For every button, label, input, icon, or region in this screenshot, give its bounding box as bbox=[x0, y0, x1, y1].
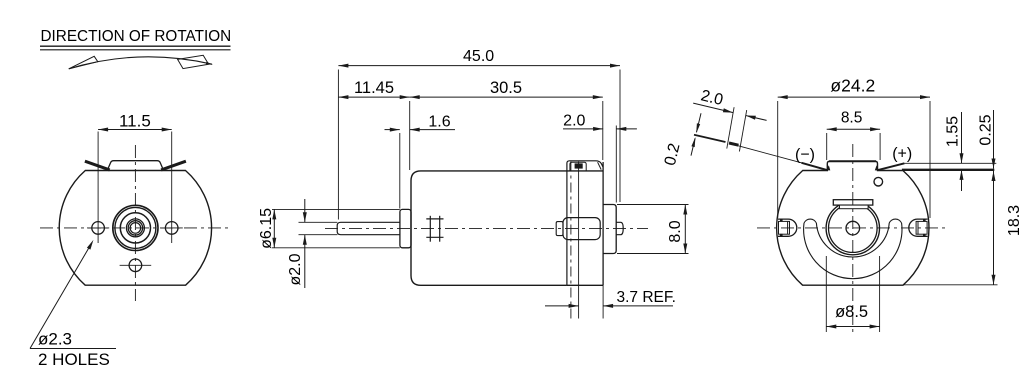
cap terminal centerline dash-dot bbox=[570, 162, 572, 319]
dimension 8.0 bbox=[684, 205, 686, 254]
side view front collar bbox=[400, 209, 411, 247]
svg-text:11.5: 11.5 bbox=[119, 111, 151, 130]
rotation arrow right open flag bbox=[178, 55, 209, 68]
rear view right terminal fold bbox=[877, 163, 904, 170]
front view left mounting hole bbox=[92, 222, 105, 235]
bottom hole horizontal tick bbox=[120, 264, 152, 266]
svg-text:3.7 REF.: 3.7 REF. bbox=[617, 289, 676, 306]
rear view motor body outline bbox=[777, 161, 929, 285]
svg-text:8.5: 8.5 bbox=[841, 110, 863, 127]
svg-text:ø8.5: ø8.5 bbox=[835, 303, 868, 321]
dimension 3.7 REF bbox=[545, 305, 579, 307]
rear view bearing recess circle outer bbox=[826, 201, 879, 254]
cap tab inner rect bbox=[570, 162, 586, 171]
front view right mounting hole bbox=[165, 222, 178, 235]
dimension 11.5 bbox=[98, 129, 172, 131]
svg-text:ø2.0: ø2.0 bbox=[287, 253, 304, 285]
svg-text:DIRECTION OF ROTATION: DIRECTION OF ROTATION bbox=[41, 28, 232, 45]
rotation arrow left open flag bbox=[69, 56, 98, 69]
side view commutator washer bbox=[429, 216, 431, 242]
svg-text:ø24.2: ø24.2 bbox=[830, 75, 875, 95]
front view top tab boss bbox=[107, 161, 163, 171]
rear terminal thin extension line bbox=[904, 162, 996, 164]
title underline double rule bbox=[40, 45, 231, 47]
front view left terminal stub bbox=[85, 161, 110, 170]
rear terminal flat strip thick line bbox=[902, 169, 994, 171]
dimension 2.0 boss bbox=[563, 128, 603, 130]
svg-text:8.0: 8.0 bbox=[667, 220, 684, 242]
side view shaft bbox=[337, 222, 400, 234]
terminal detail dimension 2.0 bbox=[693, 103, 733, 113]
dimension 8.5 tab extension lines bbox=[826, 133, 828, 160]
side view rear shaft nub bbox=[616, 222, 623, 234]
rear view vertical centerline bbox=[852, 144, 854, 335]
side view end cap outline bbox=[567, 170, 603, 172]
svg-text:0.25: 0.25 bbox=[978, 114, 995, 145]
side view rear boss bbox=[603, 205, 616, 254]
dimension 2.0 boss extension line bbox=[615, 126, 617, 203]
svg-text:1.6: 1.6 bbox=[428, 113, 450, 130]
side view cap rear face bbox=[602, 162, 604, 285]
dimension dia 24.2 bbox=[778, 96, 930, 98]
dimension 8.5 tab bbox=[827, 128, 880, 130]
rear bearing holder small tab bbox=[556, 222, 563, 236]
terminal leader line to detail bbox=[738, 146, 801, 163]
rear tab bold top edge bbox=[829, 160, 876, 162]
dimension 45.0 bbox=[338, 65, 620, 67]
rear view horseshoe vent slot bbox=[804, 219, 902, 279]
rear view right side ear bbox=[909, 219, 928, 236]
dimension dia 8.5 extension lines bbox=[825, 256, 827, 332]
cap terminal extension line bbox=[578, 162, 580, 319]
cap tab black terminal mark bbox=[575, 163, 583, 168]
terminal detail 2.0 extension lines bbox=[727, 107, 734, 148]
front view right terminal stub bbox=[161, 161, 186, 170]
cap face extension below bbox=[602, 285, 604, 318]
leader line for hole callout bbox=[30, 243, 92, 349]
rear view brush plate bbox=[833, 200, 873, 205]
cap tab inner slope line bbox=[598, 162, 602, 169]
rear view left side ear bbox=[778, 219, 797, 236]
dimension 18.3 bbox=[993, 171, 995, 285]
svg-text:2 HOLES: 2 HOLES bbox=[38, 350, 110, 369]
front view horizontal centerline bbox=[40, 227, 232, 229]
front view motor body outline bbox=[59, 171, 211, 286]
dimension 11.45 and 30.5 shared extension line bbox=[409, 101, 411, 170]
dimension 8.0 extension lines bbox=[617, 204, 689, 206]
rear view center shaft hole bbox=[846, 221, 860, 235]
svg-text:2.0: 2.0 bbox=[563, 113, 585, 130]
leader shelf line bbox=[30, 348, 116, 350]
svg-text:(+): (+) bbox=[892, 146, 912, 163]
svg-text:1.55: 1.55 bbox=[945, 116, 962, 147]
terminal detail dimension 0.2 bbox=[697, 113, 702, 132]
rear view brush plate lip bbox=[840, 205, 869, 209]
rotation arrow head right bbox=[206, 62, 213, 65]
dimension dia 2.0 shaft extension lines bbox=[299, 221, 338, 223]
side view rear bearing holder bump bbox=[563, 218, 600, 240]
svg-text:45.0: 45.0 bbox=[463, 48, 494, 65]
dimension 45.0 extension lines bbox=[337, 70, 339, 220]
side view axis centerline bbox=[325, 227, 648, 229]
front view vertical centerline bbox=[134, 145, 136, 301]
svg-text:(−): (−) bbox=[795, 147, 815, 164]
rotation direction arc arrow bbox=[69, 57, 212, 69]
front view bearing boss circles bbox=[113, 205, 158, 250]
dimension 30.5 bbox=[410, 96, 603, 98]
rear view bearing recess circle inner bbox=[829, 204, 878, 253]
dimension dia 2.0 shaft bbox=[304, 199, 306, 222]
rear view small pilot hole bbox=[874, 177, 883, 186]
dimension dia 6.15 extension lines bbox=[272, 208, 400, 210]
dimension 11.45 bbox=[338, 96, 409, 98]
side view motor can body bbox=[411, 171, 567, 285]
svg-text:11.45: 11.45 bbox=[354, 79, 394, 97]
dimension dia 24.2 extension lines bbox=[777, 101, 779, 218]
dimension dia 6.15 bbox=[273, 209, 275, 247]
side view cap top tab bbox=[567, 161, 603, 171]
dimension 0.25 bbox=[993, 110, 995, 169]
dimension 1.6 extension line bbox=[399, 133, 401, 209]
dimension dia 8.5 bbox=[826, 326, 879, 328]
rear view left terminal fold bbox=[802, 163, 828, 170]
svg-text:ø6.15: ø6.15 bbox=[258, 208, 275, 249]
rear view horizontal centerline bbox=[757, 227, 948, 229]
dimension 18.3 bottom extension bbox=[903, 284, 997, 286]
svg-text:30.5: 30.5 bbox=[490, 79, 522, 97]
dimension 1.55 bbox=[961, 112, 963, 163]
front view bottom hole bbox=[129, 259, 142, 272]
svg-text:18.3: 18.3 bbox=[1006, 205, 1023, 236]
terminal detail thick segments bbox=[694, 135, 726, 142]
svg-text:ø2.3: ø2.3 bbox=[38, 329, 72, 348]
side view can rear edge line bbox=[566, 171, 568, 285]
dimension 1.6 bbox=[385, 129, 400, 131]
dimension 11.5 extension lines bbox=[97, 132, 99, 244]
